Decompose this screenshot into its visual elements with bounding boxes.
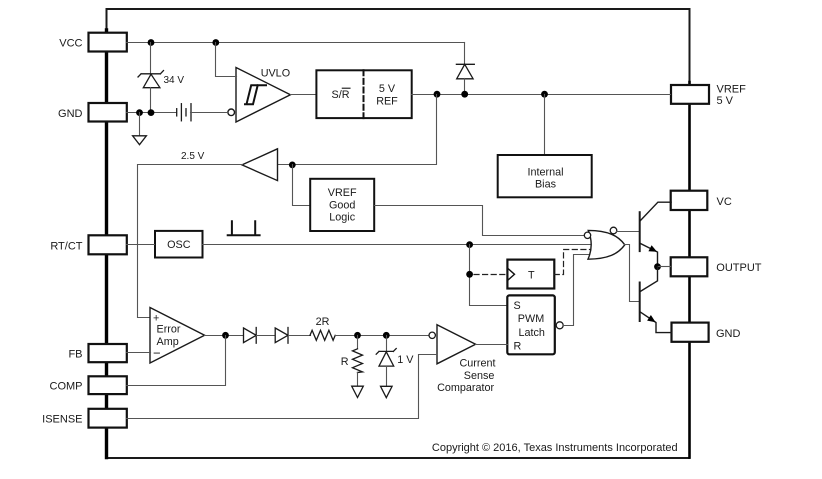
op-amp Current Sense Comparator (437, 325, 476, 364)
svg-text:VREF: VREF (328, 187, 357, 199)
node VREF rail 1 (434, 91, 441, 98)
block VREF Good Logic (310, 179, 374, 231)
svg-text:PWM: PWM (518, 313, 544, 325)
op-amp Error Amp (150, 308, 205, 364)
svg-text:Latch: Latch (518, 327, 544, 339)
svg-text:S: S (514, 300, 521, 312)
svg-text:RT/CT: RT/CT (50, 240, 82, 252)
svg-text:Comparator: Comparator (437, 382, 494, 394)
resistor R (353, 336, 363, 387)
wire 2.5V junction to VREF good logic (293, 165, 311, 206)
svg-text:Bias: Bias (535, 179, 557, 191)
svg-text:2R: 2R (316, 316, 330, 328)
svg-text:5 V: 5 V (717, 95, 734, 107)
svg-text:OSC: OSC (167, 239, 191, 251)
svg-text:R: R (514, 341, 522, 353)
svg-text:FB: FB (68, 348, 82, 360)
latch output bubble (556, 322, 563, 329)
zener diode 1V (376, 336, 396, 387)
diode D2 (244, 328, 257, 344)
svg-text:VCC: VCC (59, 38, 82, 50)
svg-text:GND: GND (716, 328, 741, 340)
svg-text:GND: GND (58, 108, 83, 120)
node VREF rail 2 (461, 91, 468, 98)
wire UVLO output (291, 94, 317, 96)
node OUTPUT junction (654, 263, 661, 270)
zener diode 34V (138, 43, 164, 113)
pin VCC (89, 33, 127, 52)
node clock-S junction (466, 241, 473, 248)
node VCC-zener junction (148, 39, 155, 46)
wire battery to UVLO bubble (191, 112, 227, 114)
pin GND (left) (89, 103, 127, 122)
ground (under 1V zener) (381, 386, 393, 397)
node GND-ground junction (136, 109, 143, 116)
resistor 2R (310, 330, 335, 340)
svg-text:+: + (153, 313, 159, 325)
OR gate input bubble (VREF good) (584, 232, 590, 238)
svg-text:Internal: Internal (527, 167, 563, 179)
block Internal Bias (498, 155, 592, 197)
wire to OUTPUT pin (658, 266, 671, 268)
hysteresis symbol (245, 85, 266, 104)
wire VCC rail (127, 42, 465, 44)
transistor Q1 (640, 202, 671, 267)
wire ISENSE to comparator (127, 355, 437, 419)
svg-text:VC: VC (717, 196, 732, 208)
svg-text:Error: Error (157, 324, 181, 336)
svg-text:VREF: VREF (717, 83, 747, 95)
flip-flop T (507, 260, 554, 289)
block PWM Latch (507, 295, 555, 354)
wire FB to error amp (127, 352, 151, 354)
wire clock to PWM latch S (470, 245, 508, 306)
left pin bus (105, 30, 108, 458)
clock waveform symbol (228, 221, 260, 235)
transistor Q2 (640, 267, 672, 333)
svg-text:Amp: Amp (157, 336, 179, 348)
wire VREF rail (412, 94, 671, 96)
wire COMP feedback (127, 336, 226, 386)
pin VREF (671, 85, 709, 104)
pin ISENSE (89, 409, 127, 428)
svg-text:OUTPUT: OUTPUT (716, 262, 762, 274)
wire GND pin to battery (127, 112, 177, 114)
svg-text:Good: Good (329, 199, 355, 211)
wire comparator output to latch R (476, 344, 508, 346)
wire VREF good logic to OR gate (375, 206, 585, 236)
OR gate top output bubble (610, 227, 617, 234)
block OSC (155, 231, 203, 258)
wire (dashed) to T flip-flop (474, 274, 507, 276)
node VCC-UVLO junction (212, 39, 219, 46)
node error amp output junction (222, 332, 229, 339)
svg-text:UVLO: UVLO (261, 67, 290, 79)
wire (dashed) T to OR gate (554, 250, 590, 275)
wire error amp output (205, 335, 244, 337)
pin RT/CT (89, 235, 127, 254)
svg-text:Current: Current (459, 358, 495, 370)
OR gate (588, 230, 625, 259)
svg-text:Sense: Sense (464, 370, 495, 382)
wire VREF to 2.5V buffer (278, 95, 437, 165)
node R junction (354, 332, 361, 339)
node clock-T junction (466, 271, 473, 278)
right pin bus (688, 82, 691, 458)
wire 2.5V to error amp (138, 165, 243, 318)
svg-text:ISENSE: ISENSE (42, 413, 82, 425)
chip outline (107, 9, 690, 458)
wire gate apex to Q2 base (625, 245, 640, 302)
wire diode to 2R (289, 335, 311, 337)
svg-text:Copyright © 2016, Texas Instru: Copyright © 2016, Texas Instruments Inco… (432, 442, 678, 454)
pin OUTPUT (671, 257, 708, 276)
node 2.5V output junction (289, 162, 296, 169)
svg-text:T: T (528, 269, 535, 281)
wire RT/CT to OSC (127, 244, 155, 246)
block S/R 5V REF (316, 70, 411, 118)
node GND-zener junction (148, 109, 155, 116)
battery (UVLO reference) (177, 104, 191, 121)
svg-text:5 V: 5 V (379, 83, 396, 95)
node VREF rail 3 (541, 91, 548, 98)
divider (dashed) (363, 70, 365, 118)
wire VCC to diode (464, 43, 466, 65)
wire 2R to junctions (336, 335, 433, 337)
svg-text:R: R (341, 356, 349, 368)
op-amp 2.5V buffer (242, 149, 278, 181)
wire OSC clock line (203, 244, 591, 246)
svg-text:Logic: Logic (329, 212, 355, 224)
wire UVLO + input (216, 43, 237, 77)
node zener junction (383, 332, 390, 339)
pin VC (671, 191, 708, 210)
wire VREF to internal bias (544, 95, 546, 155)
diode D3 (275, 328, 288, 344)
svg-text:1 V: 1 V (397, 354, 414, 366)
wire gate bubble to Q1 base (617, 231, 640, 233)
diode (VREF to VCC) (456, 64, 474, 94)
pin FB (89, 344, 127, 362)
wire latch to OR gate (564, 255, 591, 326)
pin GND (right) (672, 323, 709, 342)
svg-text:REF: REF (376, 95, 398, 107)
svg-text:S/R: S/R (332, 89, 350, 101)
svg-text:2.5 V: 2.5 V (181, 151, 205, 162)
pin COMP (89, 376, 127, 394)
op-amp UVLO comparator (228, 68, 291, 123)
ground (under R) (352, 386, 364, 397)
svg-text:34 V: 34 V (164, 75, 185, 86)
comparator input bubble (429, 332, 435, 338)
wire between diodes (257, 335, 276, 337)
ground (under GND pin) (133, 113, 147, 145)
svg-text:COMP: COMP (50, 381, 83, 393)
